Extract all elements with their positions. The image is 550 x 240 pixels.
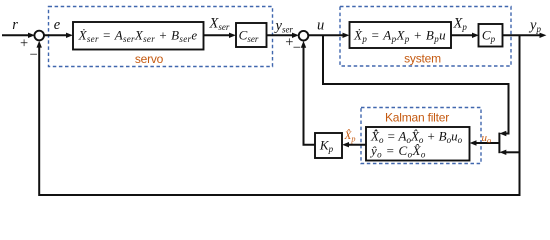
junction bar right of Kalman filter <box>498 133 500 154</box>
svg-text:servo: servo <box>135 52 164 66</box>
svg-text:−: − <box>30 47 38 63</box>
summer S2 <box>299 31 309 41</box>
wire e <box>44 34 67 36</box>
C_p block <box>479 24 503 47</box>
wire X_hat_p from Kalman filter to K_p <box>348 144 367 146</box>
Kalman filter equations block <box>366 127 470 161</box>
wire X_ser <box>204 34 231 36</box>
wire y_p output <box>503 34 541 36</box>
wire X_p <box>451 34 473 36</box>
wire u_o into Kalman filter <box>475 142 499 144</box>
K_p gain block <box>315 133 342 158</box>
summer S1 <box>34 31 44 41</box>
wire y_p feedback branch down <box>39 35 519 195</box>
svg-text:e: e <box>54 17 61 33</box>
wire u branch to Kalman filter <box>323 35 509 133</box>
svg-text:+: + <box>20 36 28 52</box>
wire K_p output to S2 minus <box>304 46 316 145</box>
servo state equation block <box>73 22 204 50</box>
C_ser block <box>236 23 267 47</box>
svg-text:Kalman filter: Kalman filter <box>385 110 449 124</box>
svg-text:−: − <box>293 40 301 56</box>
wire u <box>308 34 343 36</box>
svg-text:u: u <box>317 18 324 34</box>
wire y_ser <box>267 34 294 36</box>
servo dashed group box <box>49 7 273 67</box>
svg-text:system: system <box>404 51 441 65</box>
wire y_p tap to Kalman junction <box>505 151 520 153</box>
svg-text:r: r <box>12 17 18 33</box>
wire r input <box>2 34 29 36</box>
Kalman filter dashed group box <box>361 108 481 164</box>
plant state equation block <box>350 22 452 48</box>
svg-text:Ẋp = ApXp + Bpu: Ẋp = ApXp + Bpu <box>353 28 446 45</box>
system dashed group box <box>340 7 511 67</box>
